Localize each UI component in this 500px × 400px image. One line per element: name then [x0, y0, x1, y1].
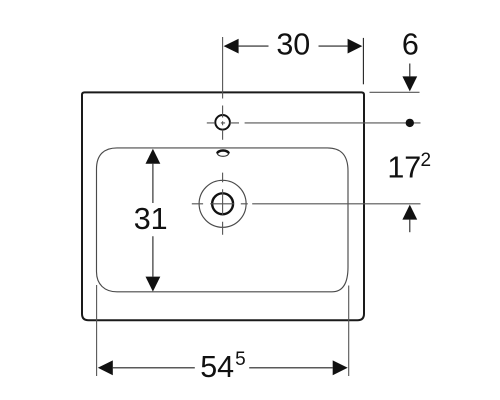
svg-text:5: 5 — [235, 349, 246, 370]
svg-text:54: 54 — [200, 350, 234, 384]
svg-text:17: 17 — [387, 150, 421, 184]
svg-text:30: 30 — [276, 27, 310, 61]
svg-text:31: 31 — [134, 202, 168, 236]
svg-text:6: 6 — [402, 28, 419, 62]
svg-text:2: 2 — [421, 150, 432, 171]
